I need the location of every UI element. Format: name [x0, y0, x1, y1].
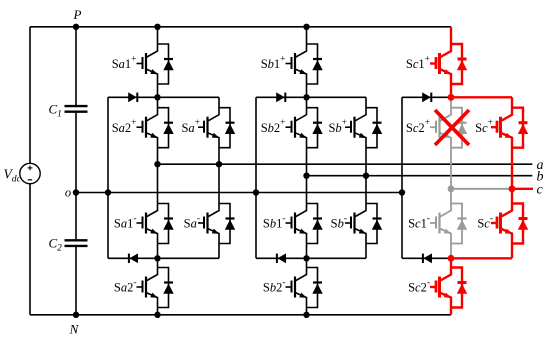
IGBT Sb1-: [286, 176, 323, 259]
clamp diode Db2 (lower): [256, 257, 307, 259]
svg-text:Sb2-​: Sb2-​: [263, 278, 286, 295]
IGBT Sa2+: [137, 97, 174, 164]
wire clamp rail phase c: [401, 97, 403, 258]
svg-text:Sc2+​: Sc2+​: [406, 118, 430, 135]
IGBT Sc2- (red, active): [430, 258, 467, 315]
wire output line b: [307, 175, 533, 177]
svg-text:Sa+​: Sa+​: [181, 118, 200, 135]
svg-text:Sb+​: Sb+​: [328, 118, 347, 135]
IGBT Sc1+ (red, active): [430, 27, 467, 98]
node N: [73, 312, 79, 318]
IGBT Sb- (redundant lower): [345, 176, 382, 259]
wire DC-link capacitor column: [75, 27, 77, 315]
svg-text:C2: C2: [49, 236, 63, 254]
svg-text:Sa1-​: Sa1-​: [114, 214, 137, 231]
svg-text:P: P: [73, 7, 82, 22]
capacitor C1: [65, 105, 88, 107]
svg-text:Sc1+​: Sc1+​: [406, 54, 430, 71]
svg-text:Sc+​: Sc+​: [475, 118, 493, 135]
IGBT Sb+ (redundant upper): [345, 97, 382, 175]
IGBT Sb1+: [286, 27, 323, 98]
IGBT Sb2-: [286, 258, 323, 315]
junction dot gray node c: [448, 185, 455, 192]
wire red M1 link phase c: [451, 96, 512, 98]
svg-text:Sb1+​: Sb1+​: [261, 54, 286, 71]
voltage source Vdc: [20, 163, 40, 183]
svg-text:Sa-​: Sa-​: [184, 214, 200, 231]
junction dot red M2c: [448, 255, 455, 262]
wire M2 link phase a: [158, 257, 220, 259]
svg-text:Sb-​: Sb-​: [331, 214, 347, 231]
svg-text:c: c: [537, 182, 544, 197]
wire output line a: [158, 163, 533, 165]
junction dots phase b: [253, 24, 369, 318]
svg-text:Sc2-​: Sc2-​: [408, 278, 430, 295]
clamp diode Da1 (upper): [108, 96, 158, 98]
N rail (bottom DC bus): [30, 314, 451, 316]
node P: [73, 24, 79, 30]
svg-text:Sa2-​: Sa2-​: [114, 278, 137, 295]
junction dot red node c output: [509, 185, 516, 192]
P rail (top DC bus): [30, 26, 451, 28]
fault X mark over Sc2+: [435, 110, 469, 145]
IGBT Sc1- (deactivated, gray): [430, 189, 467, 258]
svg-text:Sa2+​: Sa2+​: [112, 118, 137, 135]
wire red M2 link phase c: [451, 257, 512, 259]
junction dot red M1c: [448, 94, 455, 101]
wire clamp rail phase b: [255, 97, 257, 258]
IGBT Sb2+: [286, 97, 323, 175]
clamp diode Da2 (lower): [108, 257, 158, 259]
wire clamp rail phase a: [107, 97, 109, 258]
svg-text:o: o: [65, 186, 71, 200]
junction dot clamp rail c on o-line: [399, 189, 405, 195]
svg-text:Sc-​: Sc-​: [477, 214, 493, 231]
wire neutral o-line: [73, 192, 402, 194]
junction dots phase a: [105, 24, 222, 318]
svg-text:N: N: [69, 322, 80, 337]
IGBT Sa+ (redundant upper): [198, 97, 235, 164]
capacitor C2: [65, 239, 88, 241]
svg-text:Sb1-​: Sb1-​: [263, 214, 286, 231]
svg-text:Vdc: Vdc: [4, 167, 22, 185]
wire M2 link phase b: [307, 257, 367, 259]
node o: [73, 189, 79, 195]
wire output line c (red): [512, 188, 533, 190]
svg-text:Sa1+​: Sa1+​: [112, 54, 137, 71]
clamp diode Dc2 (lower): [402, 257, 451, 259]
svg-text:C1: C1: [49, 102, 62, 120]
clamp diode Dc1 (upper): [402, 96, 451, 98]
wire M1 link phase b: [307, 96, 367, 98]
wire left DC link column: [29, 27, 31, 315]
IGBT Sa2-: [137, 258, 174, 315]
wire M1 link phase a: [158, 96, 220, 98]
IGBT Sc+ (redundant, red): [491, 97, 528, 189]
svg-text:Sb2+​: Sb2+​: [261, 118, 286, 135]
wire output line c (gray bypass): [451, 188, 512, 190]
IGBT Sc- (redundant, red): [491, 189, 528, 258]
IGBT Sa- (redundant lower): [198, 164, 235, 258]
clamp diode Db1 (upper): [256, 96, 307, 98]
svg-text:Sc1-​: Sc1-​: [408, 214, 430, 231]
IGBT Sa1+: [137, 27, 174, 98]
IGBT Sc2+ (faulted, gray): [430, 97, 467, 189]
IGBT Sa1-: [137, 164, 174, 258]
